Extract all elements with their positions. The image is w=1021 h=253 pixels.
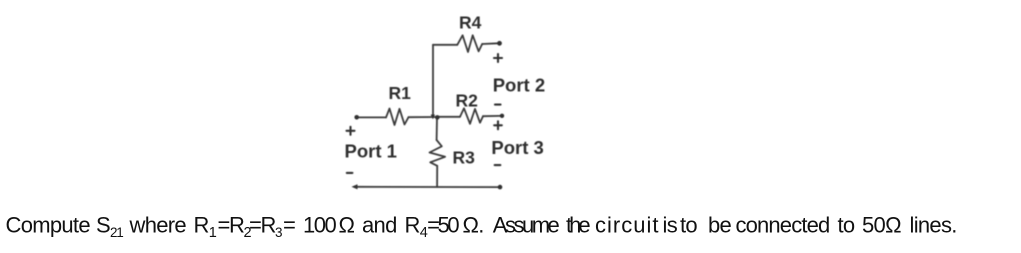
Port 3 + polarity mark — [494, 124, 502, 126]
resistor R2 — [460, 108, 483, 124]
node: Port 1 + terminal dot — [354, 115, 359, 120]
Port 1 - polarity mark — [347, 172, 353, 174]
svg-text:R3: R3 — [453, 148, 476, 168]
node: Port 1 - terminal (left end of ground rail) — [352, 184, 358, 189]
wire: junction down to R3 — [436, 118, 438, 141]
svg-text:R2: R2 — [456, 90, 479, 110]
node: Port 3 - terminal dot — [498, 185, 503, 190]
svg-text:R1: R1 — [389, 83, 412, 103]
wire: R2 to Port 2 - / Port 3 + terminal — [483, 115, 501, 117]
wire: top elbow to R4 — [433, 44, 457, 46]
resistor R1 — [386, 109, 409, 126]
junction arrow blob at top-branch foot — [431, 115, 435, 120]
wire: ground rail (bottom) — [354, 186, 500, 188]
wire: R1 to center junction — [409, 116, 438, 118]
Port 2 + polarity mark — [494, 57, 502, 59]
node: Port 2 - / Port 3 + terminal dot — [500, 114, 504, 118]
Port 1 + polarity mark — [347, 130, 355, 132]
Port 2 - polarity mark — [495, 104, 501, 106]
svg-text:ComputeS21whereR1=R2=R3=100Ωan: ComputeS21whereR1=R2=R3=100ΩandR4=50Ω. — [6, 213, 484, 242]
svg-text:Port 1: Port 1 — [345, 141, 397, 162]
resistor R4 — [457, 35, 482, 52]
Port 3 - polarity mark — [495, 164, 501, 166]
svg-text:R4: R4 — [459, 13, 482, 33]
resistor R3 — [430, 140, 446, 166]
wire: R4 to Port 2 + terminal — [482, 42, 498, 45]
wire: junction up to top branch — [432, 45, 434, 118]
wire: R3 to ground rail — [436, 166, 438, 187]
junction node dot — [435, 115, 440, 120]
svg-text:Port 3: Port 3 — [491, 137, 543, 158]
svg-text:Port 2: Port 2 — [493, 75, 545, 96]
wire: junction to R2 — [437, 116, 460, 118]
wire: Port 1 + lead to R1 — [357, 116, 386, 118]
node: Port 2 + terminal dot — [497, 41, 502, 46]
svg-text:Assumethecircuitistobeconnecte: Assumethecircuitistobeconnectedto50Ωline… — [493, 213, 957, 238]
